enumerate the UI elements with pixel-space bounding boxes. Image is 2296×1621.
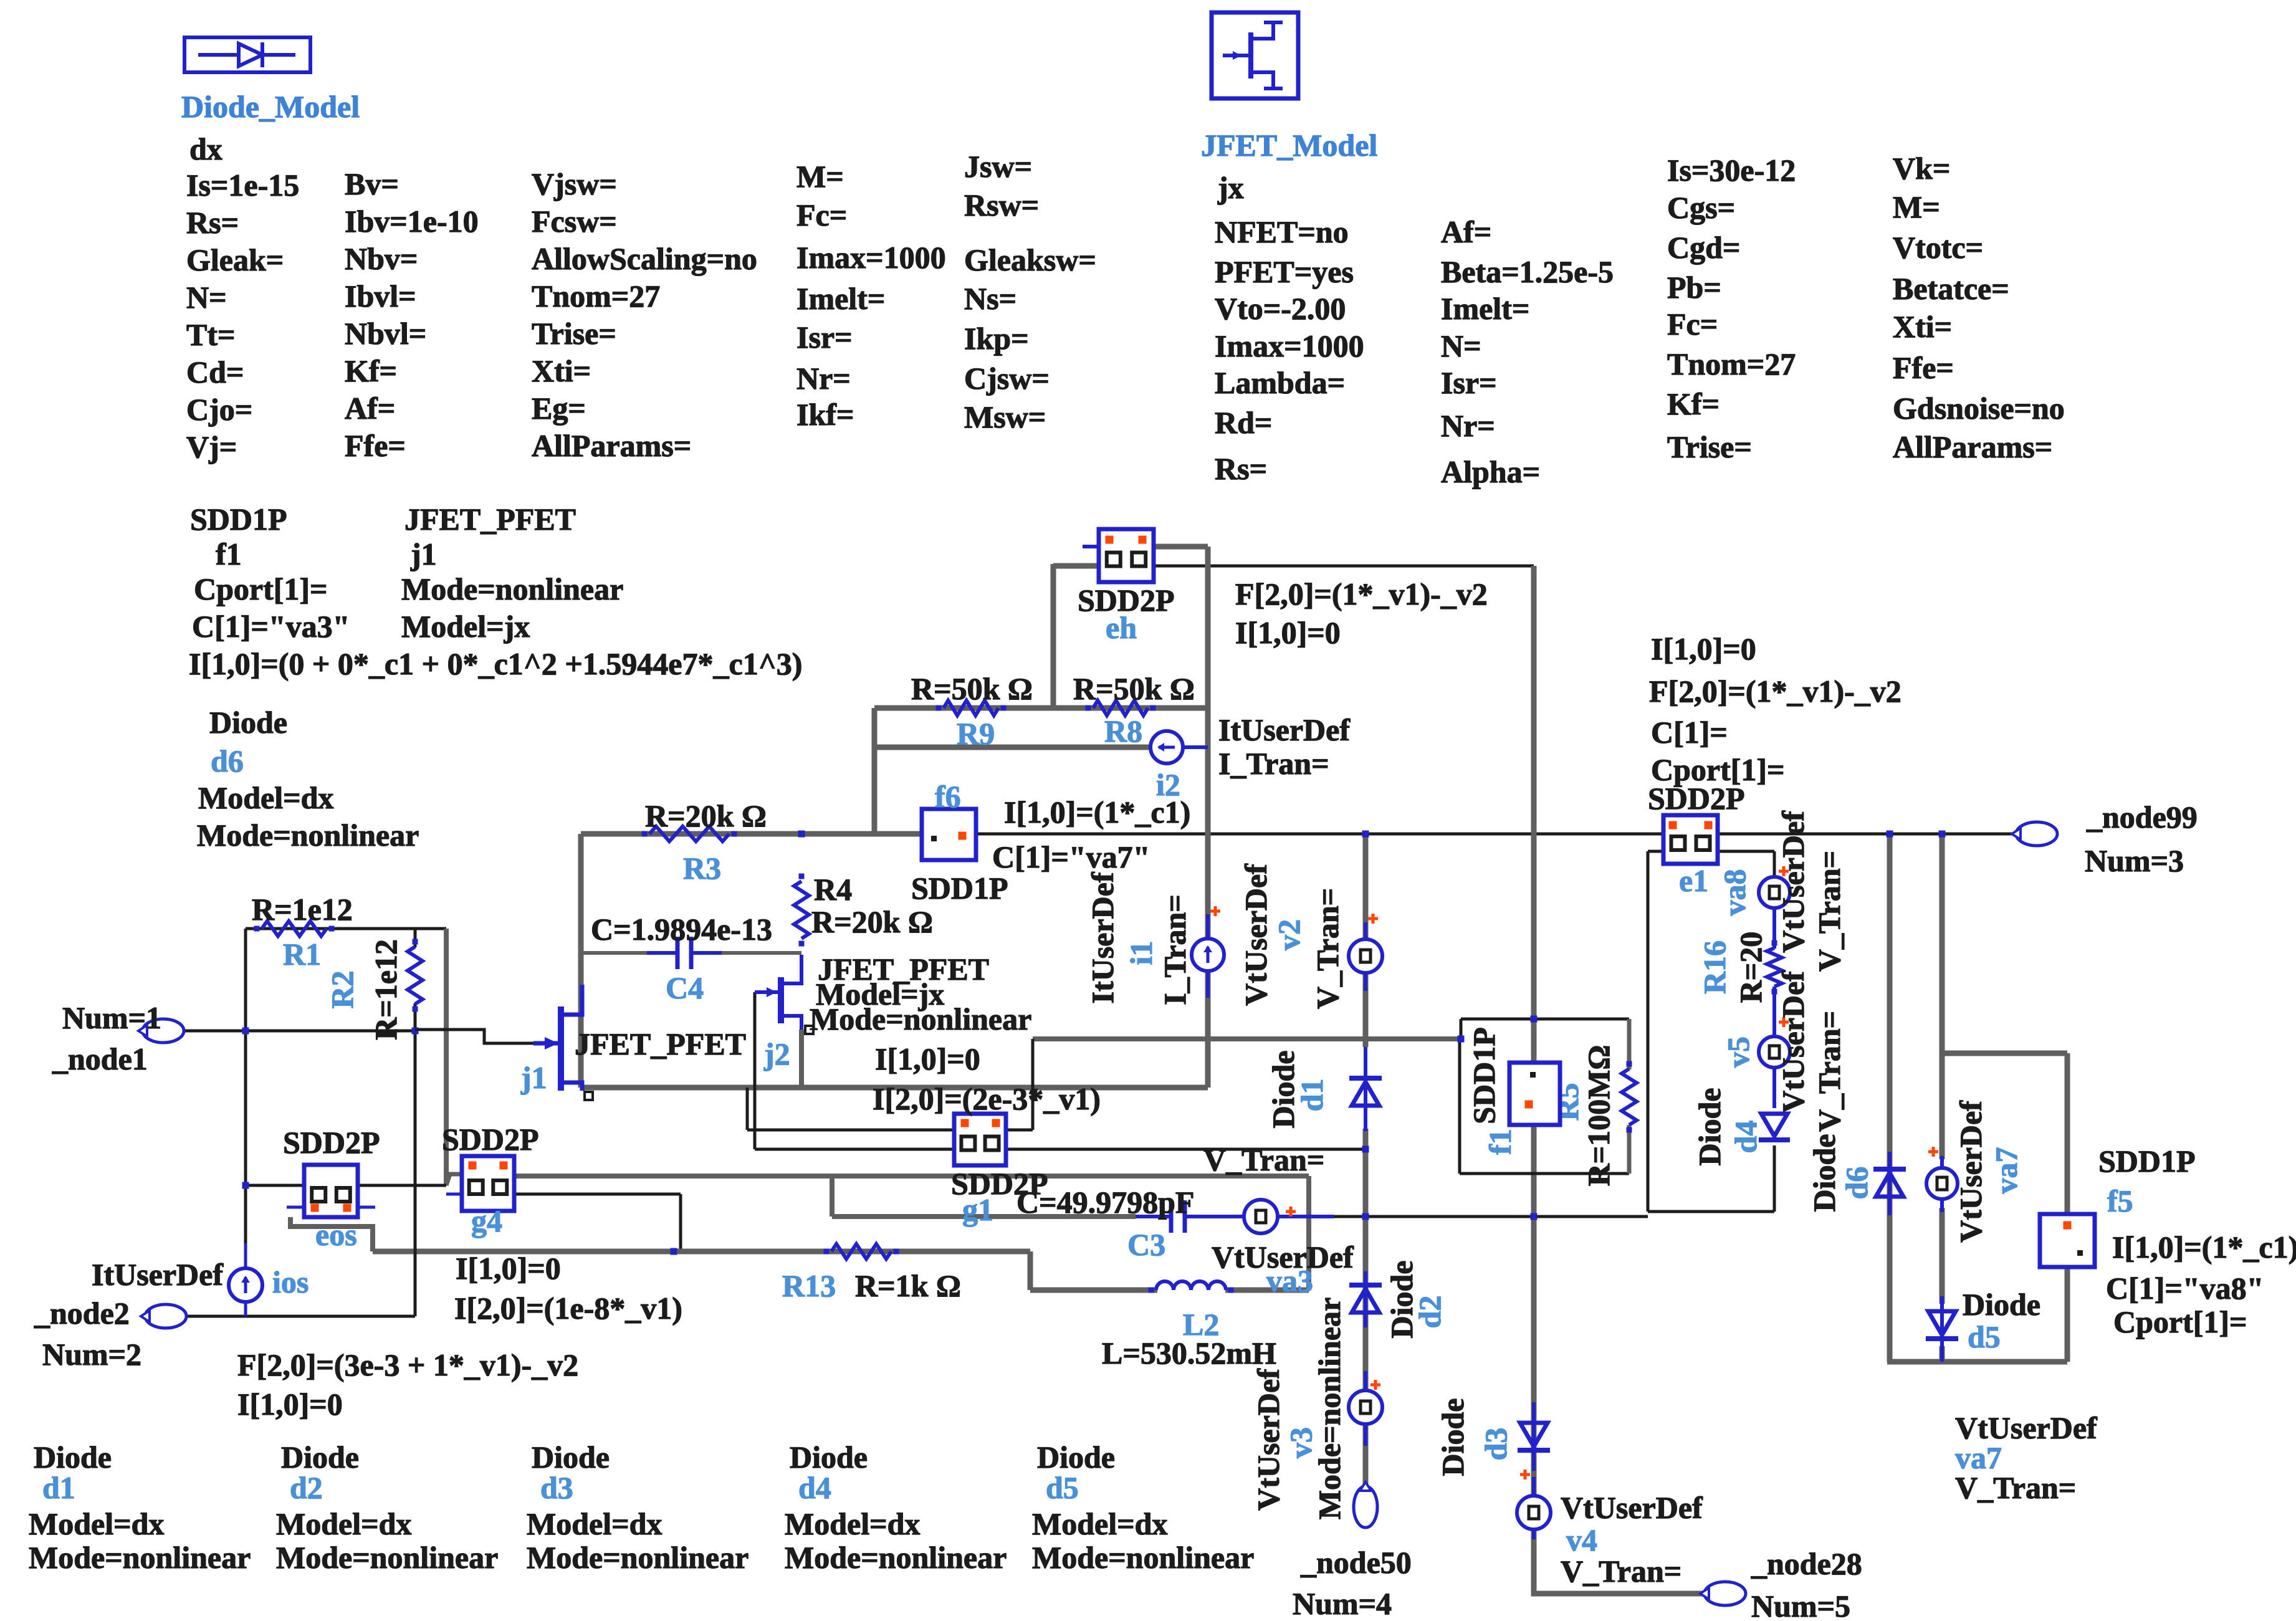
junction	[1362, 1213, 1369, 1220]
svg-text:Af=: Af=	[345, 391, 395, 426]
svg-text:ItUserDef: ItUserDef	[1218, 712, 1351, 747]
wire left vertical x394 port1/port2 net	[244, 929, 247, 1316]
wire g1 right pins	[1006, 1130, 1366, 1149]
svg-text:Num=5: Num=5	[1751, 1589, 1850, 1621]
wire ios branch	[244, 1243, 247, 1316]
wire port1 lead	[183, 1030, 415, 1033]
wire e1 feedback loop	[1648, 851, 1774, 1212]
svg-text:va7: va7	[1989, 1147, 2024, 1194]
svg-text:Rsw=: Rsw=	[964, 188, 1039, 222]
svg-text:Alpha=: Alpha=	[1441, 454, 1540, 489]
svg-text:Is=30e-12: Is=30e-12	[1667, 153, 1796, 188]
svg-text:_node99: _node99	[2086, 800, 2198, 834]
wire f5 vertical x3317	[2065, 1053, 2070, 1362]
svg-text:R8: R8	[1104, 714, 1142, 748]
svg-text:R=1k Ω: R=1k Ω	[855, 1268, 961, 1303]
diode model params col5	[964, 149, 1096, 434]
svg-text:Af=: Af=	[1441, 214, 1491, 249]
svg-text:Diode: Diode	[1692, 1088, 1727, 1166]
svg-text:Vjsw=: Vjsw=	[532, 166, 617, 201]
wire va7 branch y1690 to f5	[1942, 1051, 2067, 1056]
Diode d2 annotation	[276, 1440, 498, 1575]
svg-text:Model=dx: Model=dx	[785, 1506, 920, 1541]
svg-text:Model=dx: Model=dx	[198, 780, 333, 815]
svg-text:va3: va3	[1266, 1263, 1313, 1298]
junction	[1887, 831, 1893, 838]
voltage source va7	[1926, 1100, 2024, 1243]
junction	[1531, 1213, 1538, 1220]
Diode d3 annotation	[527, 1440, 749, 1575]
svg-text:R3: R3	[683, 851, 721, 886]
wire g4 left stubs	[446, 1193, 462, 1196]
svg-text:V_Tran=: V_Tran=	[1310, 888, 1345, 1009]
svg-text:Nr=: Nr=	[796, 361, 851, 396]
wire d6 vertical x3032	[1887, 834, 1893, 1362]
resistor R1	[252, 892, 353, 972]
svg-text:Cjo=: Cjo=	[186, 392, 252, 427]
svg-text:Msw=: Msw=	[964, 399, 1046, 434]
svg-text:Diode: Diode	[1435, 1399, 1470, 1476]
SDD1P f1 annotation	[189, 502, 802, 681]
wire C4 rail	[581, 951, 801, 955]
svg-text:d5: d5	[1968, 1319, 2001, 1354]
svg-text:Imax=1000: Imax=1000	[1215, 328, 1364, 363]
svg-text:d5: d5	[1046, 1470, 1079, 1505]
diode model name dx	[189, 131, 222, 166]
svg-text:VtUserDef: VtUserDef	[1776, 810, 1810, 953]
svg-text:M=: M=	[796, 159, 844, 194]
current source i1	[1085, 871, 1224, 1005]
wire g4 pin1 run to L2 corner	[514, 1176, 1309, 1290]
svg-text:Gleak=: Gleak=	[186, 242, 284, 277]
svg-text:Gdsnoise=no: Gdsnoise=no	[1893, 391, 2065, 426]
wire va7 vertical x3116	[1940, 834, 1945, 1362]
Diode d4 annotation	[785, 1440, 1007, 1575]
wire j-stage bottom rail	[581, 1085, 1208, 1091]
wire vertical x1403 to f6	[872, 708, 878, 834]
wire R2 branch x666	[414, 929, 417, 1316]
svg-text:Mode=nonlinear: Mode=nonlinear	[785, 1540, 1007, 1575]
junction	[1362, 1146, 1369, 1153]
svg-text:Rs=: Rs=	[186, 205, 239, 240]
svg-text:NFET=no: NFET=no	[1215, 214, 1349, 249]
capacitor C3	[1016, 1185, 1215, 1262]
current source i2	[1150, 712, 1351, 802]
svg-text:Isr=: Isr=	[1441, 365, 1497, 400]
SDD1P f5 formulas	[2106, 1230, 2296, 1339]
diode model params col3	[532, 166, 757, 463]
svg-text:Beta=1.25e-5: Beta=1.25e-5	[1441, 254, 1614, 289]
wire R9 R8 rail	[874, 705, 1208, 711]
junction	[1531, 1016, 1538, 1023]
junction	[242, 1182, 249, 1189]
svg-text:_node1: _node1	[52, 1041, 148, 1076]
SDD1P f6	[911, 779, 1008, 906]
SDD2P eh formulas	[1235, 576, 1488, 650]
svg-text:v5: v5	[1721, 1036, 1756, 1068]
wire L2 rail	[1030, 1288, 1309, 1293]
SDD1P f6 formulas	[992, 795, 1190, 874]
wire main output net to node99	[976, 833, 2016, 836]
svg-text:g4: g4	[471, 1203, 502, 1238]
svg-text:Imelt=: Imelt=	[796, 281, 885, 316]
SDD1P f1	[1466, 1027, 1560, 1155]
svg-text:R16: R16	[1697, 940, 1732, 994]
wire port2 lead	[186, 1315, 415, 1318]
svg-text:R=20k Ω: R=20k Ω	[645, 798, 767, 833]
svg-text:Num=3: Num=3	[2085, 843, 2184, 878]
diode model params col2	[345, 166, 479, 463]
svg-text:Model=jx: Model=jx	[401, 609, 530, 644]
svg-text:eh: eh	[1106, 610, 1137, 645]
diode d1	[1266, 1047, 1382, 1131]
svg-text:Jsw=: Jsw=	[964, 149, 1032, 184]
svg-text:C3: C3	[1127, 1227, 1165, 1262]
svg-text:VtUserDef: VtUserDef	[1238, 863, 1273, 1006]
svg-text:j1: j1	[410, 537, 437, 571]
svg-text:Bv=: Bv=	[345, 166, 399, 201]
svg-text:Fc=: Fc=	[796, 198, 847, 232]
diode d6	[1807, 1134, 1906, 1216]
svg-text:C[1]="va7": C[1]="va7"	[992, 839, 1150, 874]
svg-text:Nbv=: Nbv=	[345, 241, 418, 276]
svg-text:R4: R4	[814, 872, 852, 907]
jfet model params col4	[1893, 151, 2065, 464]
wire R3 rail	[581, 831, 922, 837]
svg-text:Isr=: Isr=	[796, 320, 853, 355]
svg-text:f1: f1	[216, 537, 242, 571]
svg-text:Diode: Diode	[281, 1440, 359, 1475]
diode d5	[1926, 1287, 2040, 1362]
wire thick x716 R1 rail to eos/g4 row	[446, 929, 462, 1185]
svg-text:Vj=: Vj=	[186, 429, 237, 464]
svg-text:v2: v2	[1271, 919, 1306, 950]
svg-text:Ns=: Ns=	[964, 281, 1016, 316]
resistor R2	[325, 939, 423, 1040]
svg-text:Betatce=: Betatce=	[1893, 271, 2009, 306]
svg-text:AllParams=: AllParams=	[1893, 429, 2052, 464]
svg-text:Ikp=: Ikp=	[964, 321, 1029, 356]
inductor L2	[1102, 1281, 1276, 1370]
svg-text:d4: d4	[798, 1470, 831, 1505]
svg-text:g1: g1	[962, 1192, 993, 1227]
svg-text:Num=1: Num=1	[62, 1000, 161, 1035]
svg-text:e1: e1	[1679, 863, 1708, 898]
svg-text:_node50: _node50	[1300, 1545, 1412, 1580]
svg-text:Rd=: Rd=	[1215, 405, 1272, 440]
svg-text:Cgd=: Cgd=	[1667, 230, 1740, 265]
wire j2 gate riser to g1 lower-left pin	[755, 992, 954, 1149]
diode model params col1	[186, 168, 299, 464]
svg-text:F[2,0]=(1*_v1)-_v2: F[2,0]=(1*_v1)-_v2	[1235, 576, 1488, 611]
svg-text:VtUserDef: VtUserDef	[1776, 970, 1810, 1113]
Diode_Model symbol	[184, 37, 310, 72]
svg-text:Mode=nonlinear: Mode=nonlinear	[401, 571, 623, 606]
svg-text:Diode: Diode	[209, 705, 287, 740]
svg-text:Kf=: Kf=	[345, 353, 397, 388]
svg-text:va8: va8	[1717, 869, 1752, 916]
wire eos bottom U to lower bus	[290, 1217, 373, 1251]
svg-text:SDD1P: SDD1P	[911, 871, 1008, 906]
svg-text:SDD1P: SDD1P	[2098, 1144, 2196, 1179]
svg-text:R13: R13	[782, 1268, 836, 1303]
wire v4 to node28 segment handled by x2461 bus	[1531, 1530, 1537, 1591]
svg-text:Cport[1]=: Cport[1]=	[2113, 1304, 2247, 1339]
svg-text:F[2,0]=(3e-3 + 1*_v1)-_v2: F[2,0]=(3e-3 + 1*_v1)-_v2	[237, 1347, 578, 1382]
svg-text:ItUserDef: ItUserDef	[92, 1257, 224, 1292]
svg-text:I[2,0]=(1e-8*_v1): I[2,0]=(1e-8*_v1)	[454, 1291, 682, 1326]
jfet model params col2	[1441, 214, 1614, 489]
svg-text:Pb=: Pb=	[1667, 270, 1721, 305]
svg-text:ios: ios	[272, 1265, 309, 1299]
svg-text:I_Tran=: I_Tran=	[1218, 746, 1329, 781]
svg-text:Mode=nonlinear: Mode=nonlinear	[1032, 1540, 1254, 1575]
svg-text:Mode=nonlinear: Mode=nonlinear	[276, 1540, 498, 1575]
SDD1P f5	[2040, 1144, 2196, 1267]
svg-text:R=50k Ω: R=50k Ω	[911, 671, 1033, 706]
svg-text:R=1e12: R=1e12	[368, 939, 403, 1040]
svg-text:Vtotc=: Vtotc=	[1893, 230, 1983, 265]
Diode d5 annotation	[1032, 1440, 1254, 1575]
svg-text:Diode: Diode	[790, 1440, 868, 1475]
svg-text:Trise=: Trise=	[1667, 429, 1752, 464]
junction	[242, 1028, 249, 1035]
svg-text:R=50k Ω: R=50k Ω	[1073, 671, 1195, 706]
svg-text:VtUserDef: VtUserDef	[1953, 1100, 1988, 1243]
diode model params col4	[796, 159, 946, 432]
svg-text:Cgs=: Cgs=	[1667, 190, 1735, 225]
svg-text:VtUserDef: VtUserDef	[1251, 1368, 1286, 1511]
SDD2P g4	[442, 1122, 539, 1238]
svg-text:Lambda=: Lambda=	[1215, 365, 1345, 400]
voltage source v4	[1517, 1470, 1703, 1589]
wire j-stage left edge	[578, 834, 584, 1088]
svg-text:V_Tran=: V_Tran=	[1955, 1470, 2076, 1505]
wire va3 rail	[832, 1176, 1648, 1217]
svg-text:d6: d6	[211, 744, 244, 778]
JFET j2	[755, 952, 1031, 1088]
svg-text:Kf=: Kf=	[1667, 386, 1720, 421]
svg-text:Mode=nonlinear: Mode=nonlinear	[29, 1540, 251, 1575]
svg-text:PFET=yes: PFET=yes	[1215, 254, 1354, 289]
junction	[1458, 1036, 1465, 1043]
resistor R16	[1697, 932, 1782, 1003]
svg-text:Diode: Diode	[1807, 1134, 1842, 1212]
current source ios	[92, 1257, 309, 1302]
Diode d6 annotation	[197, 705, 419, 853]
svg-text:V_Tran=: V_Tran=	[1203, 1142, 1324, 1177]
svg-text:SDD2P: SDD2P	[283, 1125, 380, 1160]
SDD2P e1	[1648, 781, 1745, 898]
svg-text:f6: f6	[935, 779, 961, 814]
svg-text:Tnom=27: Tnom=27	[532, 279, 660, 313]
voltage source v2	[1238, 863, 1382, 1009]
voltage source v5	[1721, 970, 1847, 1132]
svg-text:Fcsw=: Fcsw=	[532, 204, 617, 239]
wire f1 loop left and bottom	[1460, 1039, 1629, 1174]
svg-text:Mode=nonlinear: Mode=nonlinear	[197, 818, 419, 853]
wire g4 pin2 run	[514, 1194, 681, 1251]
svg-text:AllParams=: AllParams=	[532, 428, 691, 463]
svg-text:VtUserDef: VtUserDef	[1561, 1490, 1703, 1525]
svg-text:Eg=: Eg=	[532, 391, 586, 426]
resistor R9	[911, 671, 1033, 751]
svg-text:Diode: Diode	[1963, 1287, 2040, 1322]
svg-text:f5: f5	[2107, 1183, 2133, 1218]
svg-text:Tt=: Tt=	[186, 317, 236, 352]
svg-text:V_Tran=: V_Tran=	[1561, 1554, 1681, 1589]
eos formulas	[454, 1251, 682, 1326]
svg-text:eos: eos	[315, 1217, 357, 1252]
svg-text:SDD1P: SDD1P	[1466, 1027, 1501, 1124]
svg-text:Gleaksw=: Gleaksw=	[964, 242, 1096, 277]
svg-text:R=1e12: R=1e12	[252, 892, 353, 927]
svg-text:I[1,0]=0: I[1,0]=0	[1651, 631, 1756, 666]
voltage source va8	[1717, 810, 1847, 972]
svg-text:Is=1e-15: Is=1e-15	[186, 168, 299, 203]
svg-text:I[1,0]=(0 + 0*_c1 + 0*_c1^2 +1: I[1,0]=(0 + 0*_c1 + 0*_c1^2 +1.5944e7*_c…	[189, 646, 802, 681]
resistor R4	[794, 872, 933, 947]
svg-text:L=530.52mH: L=530.52mH	[1102, 1336, 1276, 1370]
resistor R8	[1073, 671, 1195, 748]
wire vertical x1657 g1 right pin riser	[1031, 1039, 1035, 1130]
svg-text:Mode=nonlinear: Mode=nonlinear	[527, 1540, 749, 1575]
svg-text:Diode: Diode	[34, 1440, 112, 1475]
resistor R13	[782, 1244, 961, 1303]
svg-text:j1: j1	[520, 1060, 547, 1095]
SDD2P eh	[1078, 529, 1175, 645]
eos F formula	[237, 1347, 578, 1422]
svg-text:i2: i2	[1156, 767, 1180, 802]
svg-text:N=: N=	[186, 280, 227, 315]
svg-text:d6: d6	[1839, 1167, 1874, 1200]
svg-text:Cport[1]=: Cport[1]=	[194, 571, 328, 606]
svg-text:JFET_PFET: JFET_PFET	[404, 502, 576, 537]
port 5 _node28	[1700, 1546, 1862, 1621]
wire g1 upper-left pin riser	[747, 1088, 954, 1130]
svg-text:Num=2: Num=2	[42, 1337, 141, 1372]
Diode_Model title	[181, 89, 360, 124]
svg-text:Model=dx: Model=dx	[1032, 1506, 1167, 1541]
svg-text:R9: R9	[957, 716, 995, 751]
diode d2	[1349, 1261, 1447, 1339]
svg-text:Mode=nonlinear: Mode=nonlinear	[810, 1002, 1031, 1036]
wire R1 rail	[246, 927, 446, 930]
svg-text:Model=dx: Model=dx	[276, 1506, 411, 1541]
svg-text:Diode: Diode	[1037, 1440, 1115, 1475]
svg-text:R=20: R=20	[1733, 932, 1768, 1003]
svg-text:Imax=1000: Imax=1000	[796, 240, 946, 275]
wire lower bus with R13	[373, 1251, 1030, 1290]
svg-text:d2: d2	[290, 1470, 323, 1505]
jfet model name jx	[1217, 170, 1244, 205]
wire bottom loop d6-d5-f5	[1887, 1359, 2067, 1365]
svg-text:Imelt=: Imelt=	[1441, 291, 1529, 326]
junction	[798, 831, 805, 838]
svg-text:Cd=: Cd=	[186, 355, 244, 390]
svg-text:JFET_Model: JFET_Model	[1201, 128, 1377, 163]
port 1 _node1	[52, 1000, 184, 1076]
capacitor C4	[591, 912, 772, 1005]
svg-text:M=: M=	[1893, 189, 1940, 224]
svg-text:Nr=: Nr=	[1441, 408, 1495, 443]
SDD2P g1 formulas	[873, 1041, 1101, 1116]
svg-text:Tnom=27: Tnom=27	[1667, 347, 1796, 381]
svg-text:Num=4: Num=4	[1293, 1586, 1392, 1621]
svg-text:d4: d4	[1728, 1121, 1763, 1154]
svg-text:C[1]="va3": C[1]="va3"	[192, 609, 350, 644]
resistor R3	[642, 798, 767, 886]
svg-text:F[2,0]=(1*_v1)-_v2: F[2,0]=(1*_v1)-_v2	[1649, 674, 1901, 709]
svg-text:Cport[1]=: Cport[1]=	[1651, 752, 1785, 787]
wire va8-R16-v5-d4 chain x2847	[1773, 851, 1776, 1212]
SDD2P eos	[283, 1125, 380, 1252]
svg-text:R2: R2	[325, 970, 360, 1008]
svg-text:Model=dx: Model=dx	[527, 1506, 662, 1541]
svg-text:SDD1P: SDD1P	[190, 502, 287, 537]
svg-text:Nbvl=: Nbvl=	[345, 316, 426, 351]
svg-text:d3: d3	[1478, 1428, 1513, 1461]
port 3 _node99	[2012, 800, 2198, 878]
JFET_Model symbol	[1212, 12, 1298, 98]
svg-text:Diode: Diode	[532, 1440, 610, 1475]
wire d-line x2191 (d1 d2 v3 node50)	[1363, 834, 1369, 1487]
svg-text:JFET_PFET: JFET_PFET	[575, 1026, 746, 1061]
JFET_PFET j1 annotation	[401, 502, 623, 644]
svg-text:SDD2P: SDD2P	[442, 1122, 539, 1157]
wire thick y1667 from g1 up-right to f1 loop	[1033, 1019, 1629, 1039]
svg-text:R=20k Ω: R=20k Ω	[811, 904, 933, 939]
svg-text:Vk=: Vk=	[1893, 151, 1950, 186]
svg-text:Xti=: Xti=	[532, 353, 591, 388]
diode d4	[1692, 1088, 1790, 1166]
port 2 _node2	[34, 1296, 186, 1372]
Diode d1 annotation	[29, 1440, 251, 1575]
jfet model params col1	[1215, 214, 1364, 486]
JFET_Model title	[1201, 128, 1377, 163]
svg-text:I[1,0]=0: I[1,0]=0	[875, 1041, 980, 1076]
voltage source va3	[1203, 1142, 1354, 1298]
svg-text:V_Tran=: V_Tran=	[1812, 1011, 1847, 1132]
svg-text:I[2,0]=(2e-3*_v1): I[2,0]=(2e-3*_v1)	[873, 1081, 1101, 1116]
svg-text:Diode_Model: Diode_Model	[181, 89, 360, 124]
svg-text:C4: C4	[666, 970, 704, 1005]
svg-text:I[1,0]=0: I[1,0]=0	[456, 1251, 561, 1286]
svg-text:I[1,0]=0: I[1,0]=0	[1235, 615, 1341, 650]
junction	[671, 1248, 677, 1255]
junction	[1362, 831, 1369, 838]
wire eh lower-right to vertical bus	[1154, 565, 1534, 568]
SDD2P e1 formulas	[1649, 631, 1901, 787]
svg-text:Fc=: Fc=	[1667, 307, 1718, 342]
svg-text:C[1]=: C[1]=	[1651, 715, 1728, 750]
svg-text:V_Tran=: V_Tran=	[1812, 851, 1847, 972]
wire vertical bus x2461 (node28 net)	[1534, 566, 1706, 1594]
svg-text:C[1]="va8": C[1]="va8"	[2106, 1271, 2264, 1306]
svg-text:d3: d3	[540, 1470, 573, 1505]
svg-text:Vto=-2.00: Vto=-2.00	[1215, 291, 1346, 326]
svg-text:Rs=: Rs=	[1215, 451, 1267, 486]
svg-text:Xti=: Xti=	[1893, 309, 1952, 344]
wire R5 branch x2614	[1627, 1019, 1632, 1174]
svg-text:_node28: _node28	[1751, 1546, 1862, 1581]
voltage source v3	[1251, 1298, 1382, 1519]
svg-text:Ffe=: Ffe=	[345, 428, 406, 463]
wire eos pins	[246, 1185, 446, 1207]
junction	[1939, 831, 1946, 838]
diode d5 annotation bottom	[1955, 1410, 2098, 1505]
junction	[412, 1028, 419, 1035]
